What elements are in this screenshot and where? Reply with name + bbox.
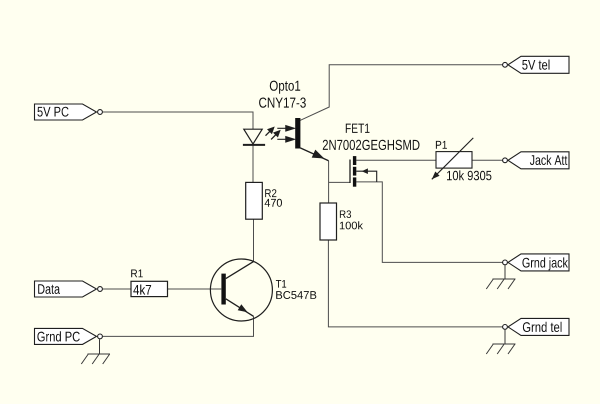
- label P1: [436, 141, 447, 149]
- Opto1 light emission arrow 1: [266, 127, 274, 135]
- wire R2 to T1 collector: [253, 219, 255, 262]
- label Opto1: [270, 81, 300, 94]
- label R3: [340, 210, 351, 218]
- label R2: [265, 189, 276, 197]
- connector Grnd PC: [35, 328, 103, 344]
- connector Jack Att: [503, 152, 569, 169]
- wire FET1 source to Grnd jack: [356, 182, 502, 263]
- resistor R2: [246, 182, 263, 219]
- value BC547B: [276, 291, 316, 299]
- ground chassis at Grnd PC: [81, 339, 110, 364]
- transistor T1: [210, 259, 272, 321]
- ground chassis at Grnd tel: [486, 330, 515, 354]
- wire FET1 drain to P1: [356, 159, 436, 161]
- Opto1 phototransistor emitter arrow: [300, 148, 328, 161]
- wire Data to R1: [103, 288, 131, 290]
- Opto1 light arrow to base 1: [277, 126, 294, 131]
- value 100k: [340, 221, 363, 229]
- resistor R1: [131, 281, 168, 296]
- connector Grnd tel: [503, 318, 569, 335]
- FET FET1: [350, 156, 377, 187]
- wire FET1 gate lead: [329, 181, 350, 183]
- value 2N7002GEGHSMD: [323, 140, 420, 150]
- Opto1 light arrow to base 2: [277, 137, 294, 142]
- optocoupler Opto1 LED: [243, 129, 265, 145]
- label CNY17-3: [259, 98, 306, 108]
- wire P1 to Jack Att: [472, 159, 503, 161]
- value 10k 9305: [447, 170, 491, 180]
- wire Grnd PC to T1 emitter: [103, 316, 254, 336]
- label FET1: [346, 124, 370, 133]
- connector Data: [35, 281, 103, 297]
- value 470: [265, 199, 282, 207]
- label R1: [131, 270, 143, 278]
- wire LED cathode to R2: [252, 145, 254, 183]
- potentiometer P1: [432, 138, 474, 179]
- label T1: [276, 280, 286, 288]
- ground chassis at Grnd jack: [486, 265, 515, 289]
- resistor R3: [320, 203, 337, 240]
- wire Opto1 collector to 5V tel: [300, 65, 503, 121]
- value 4k7: [133, 285, 151, 295]
- wire 5V PC to LED anode: [103, 112, 253, 129]
- connector 5V PC: [35, 104, 103, 120]
- Opto1 light emission arrow 2: [271, 131, 280, 140]
- wire Opto1 emitter down to R3: [328, 161, 330, 203]
- Opto1 phototransistor base bar: [295, 118, 300, 149]
- wire R3 to Grnd tel: [328, 240, 502, 327]
- wire R1 to T1 base: [168, 288, 222, 290]
- connector 5V tel: [503, 56, 569, 73]
- connector Grnd jack: [503, 254, 569, 271]
